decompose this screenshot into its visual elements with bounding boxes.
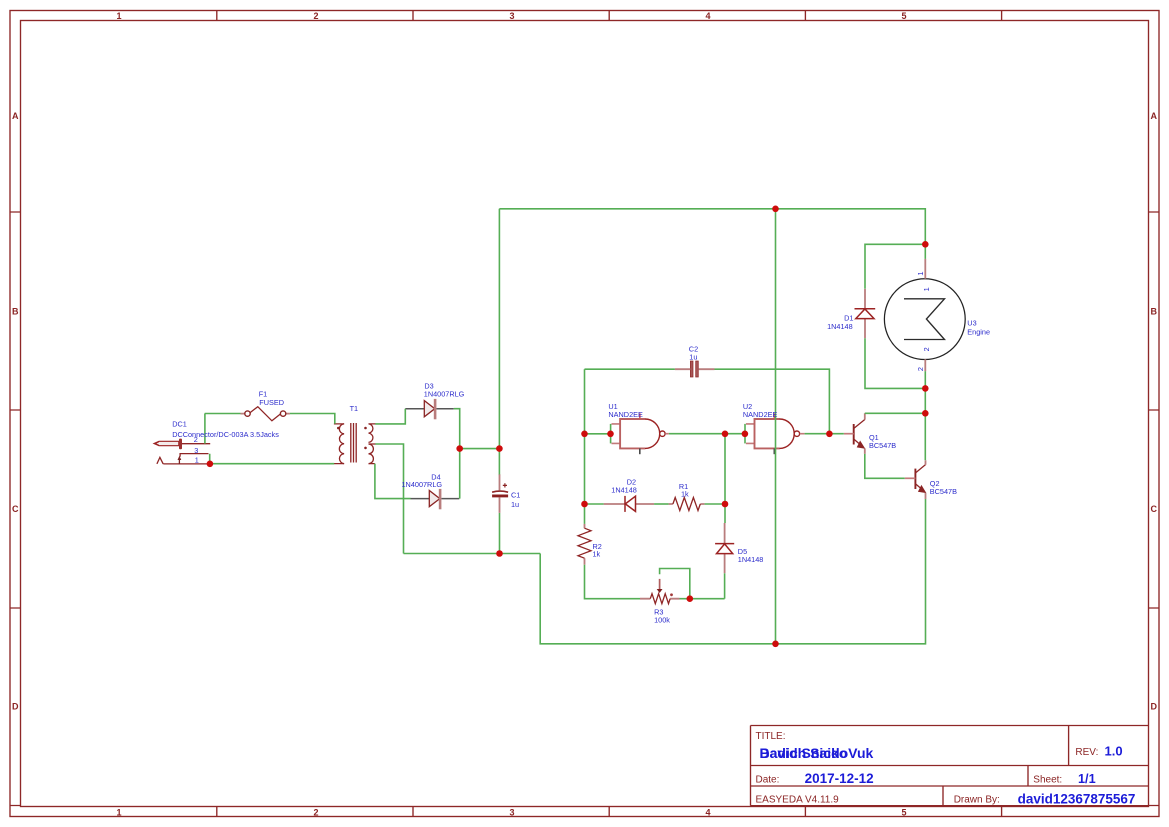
- pale leads C1: [499, 474, 501, 513]
- wire: [404, 553, 541, 555]
- svg-text:3: 3: [509, 11, 514, 21]
- junction: [581, 501, 588, 508]
- wire: [375, 409, 405, 424]
- wire: [498, 209, 500, 476]
- wire: [499, 513, 501, 554]
- diode D5: [715, 523, 734, 573]
- svg-text:Badich SaidoVuk: Badich SaidoVuk: [760, 745, 874, 761]
- svg-text:2: 2: [194, 435, 198, 444]
- svg-text:1N4148: 1N4148: [738, 555, 764, 564]
- wire: [865, 244, 925, 288]
- svg-text:1N4007RLG: 1N4007RLG: [424, 390, 465, 399]
- svg-text:100k: 100k: [654, 615, 670, 624]
- junction: [922, 241, 929, 248]
- svg-text:BC547B: BC547B: [869, 441, 896, 450]
- wire: [584, 434, 586, 524]
- wire: [724, 434, 726, 523]
- wire: [775, 209, 777, 644]
- wire: [654, 503, 669, 505]
- resistor R2: [578, 524, 591, 565]
- wire: [865, 454, 905, 478]
- svg-text:NAND2EE: NAND2EE: [608, 410, 643, 419]
- wire: [924, 244, 926, 259]
- svg-text:5: 5: [901, 11, 906, 21]
- svg-text:1: 1: [116, 11, 121, 21]
- wire: [210, 454, 335, 464]
- svg-text:Drawn By:: Drawn By:: [954, 795, 1000, 806]
- svg-text:2: 2: [313, 808, 318, 818]
- svg-text:Date:: Date:: [756, 775, 780, 786]
- svg-text:T1: T1: [350, 404, 359, 413]
- wire: [715, 369, 830, 434]
- wire: [290, 414, 335, 424]
- wire: [585, 503, 604, 505]
- wire: [705, 503, 725, 505]
- svg-text:david12367875567: david12367875567: [1018, 792, 1136, 807]
- fuse F1: [241, 407, 290, 421]
- junction: [456, 445, 463, 452]
- wire: [375, 464, 411, 499]
- junction: [607, 431, 614, 438]
- svg-text:DC1: DC1: [172, 420, 187, 429]
- svg-text:2: 2: [922, 347, 931, 351]
- svg-text:C1: C1: [511, 491, 520, 500]
- capacitor C2: [690, 361, 698, 377]
- junction: [207, 461, 214, 468]
- junction: [922, 410, 929, 417]
- svg-text:2: 2: [313, 11, 318, 21]
- svg-text:2: 2: [916, 367, 925, 371]
- svg-text:TITLE:: TITLE:: [756, 731, 786, 742]
- connector DC1: [154, 439, 210, 464]
- junction: [722, 501, 729, 508]
- motor U3: [884, 259, 965, 371]
- transformer T1: [334, 423, 376, 464]
- wire: [585, 433, 611, 435]
- svg-text:B: B: [1151, 307, 1158, 317]
- pale leads C2: [675, 368, 715, 370]
- wire: [585, 368, 675, 370]
- svg-text:FUSED: FUSED: [259, 398, 284, 407]
- wire: [499, 209, 925, 245]
- wire: [724, 573, 726, 598]
- diode D4: [411, 489, 460, 509]
- wire: [680, 598, 725, 600]
- svg-text:D: D: [1151, 702, 1158, 712]
- diode D1: [855, 289, 876, 338]
- svg-text:BC547B: BC547B: [930, 487, 957, 496]
- wire: [585, 565, 641, 599]
- svg-text:1/1: 1/1: [1078, 772, 1096, 786]
- svg-text:1: 1: [922, 287, 931, 291]
- wire: [460, 448, 500, 450]
- svg-text:A: A: [12, 111, 19, 121]
- wire: [375, 444, 403, 554]
- svg-text:A: A: [1151, 111, 1158, 121]
- junction: [722, 431, 729, 438]
- svg-text:Engine: Engine: [967, 328, 990, 337]
- svg-text:2017-12-12: 2017-12-12: [805, 771, 874, 786]
- svg-text:1N4148: 1N4148: [827, 322, 853, 331]
- svg-text:D1: D1: [844, 313, 853, 322]
- svg-text:1u: 1u: [689, 353, 697, 362]
- svg-text:3: 3: [509, 808, 514, 818]
- wire: [454, 409, 460, 499]
- diode D3: [405, 399, 454, 419]
- resistor R1: [669, 498, 705, 511]
- junction: [496, 445, 503, 452]
- junction: [581, 431, 588, 438]
- wire: [205, 413, 241, 415]
- junction: [772, 641, 779, 648]
- svg-text:4: 4: [705, 808, 710, 818]
- svg-text:1: 1: [116, 808, 121, 818]
- capacitor C1: [492, 483, 508, 496]
- svg-text:Sheet:: Sheet:: [1033, 775, 1062, 786]
- junction: [826, 431, 833, 438]
- svg-text:1u: 1u: [511, 500, 519, 509]
- wire: [584, 369, 586, 434]
- svg-text:EASYEDA V4.11.9: EASYEDA V4.11.9: [756, 795, 840, 806]
- svg-text:C: C: [12, 504, 19, 514]
- nand gate U1: [611, 413, 669, 454]
- svg-text:DCConnector/DC-003A 3.5Jacks: DCConnector/DC-003A 3.5Jacks: [172, 430, 279, 439]
- svg-text:1N4007RLG: 1N4007RLG: [402, 480, 443, 489]
- svg-text:1k: 1k: [681, 490, 689, 499]
- svg-text:1N4148: 1N4148: [611, 486, 637, 495]
- junction: [772, 206, 779, 213]
- svg-text:5: 5: [901, 808, 906, 818]
- potentiometer R3: [640, 579, 680, 604]
- svg-text:1: 1: [916, 272, 925, 276]
- transistor Q1: [844, 413, 866, 454]
- wire: [924, 371, 926, 460]
- wire: [540, 499, 925, 644]
- wire: [204, 414, 206, 444]
- nand gate U2: [745, 413, 805, 454]
- wire: [865, 338, 925, 388]
- svg-text:REV:: REV:: [1075, 747, 1098, 758]
- svg-text:U3: U3: [967, 319, 976, 328]
- svg-text:4: 4: [705, 11, 710, 21]
- junction: [687, 595, 694, 602]
- svg-text:NAND2EE: NAND2EE: [743, 410, 778, 419]
- svg-text:D: D: [12, 702, 19, 712]
- TITLEBLOCK: [751, 726, 1149, 807]
- junction: [922, 385, 929, 392]
- junction: [496, 550, 503, 557]
- svg-text:1: 1: [195, 455, 199, 464]
- wire: [660, 569, 690, 599]
- wire: [669, 433, 745, 435]
- wire: [865, 412, 926, 414]
- svg-text:1k: 1k: [593, 550, 601, 559]
- diode D2: [604, 496, 655, 512]
- wire: [805, 433, 844, 435]
- junction: [742, 431, 749, 438]
- svg-text:C: C: [1151, 504, 1158, 514]
- transistor Q2: [905, 460, 927, 499]
- svg-text:1.0: 1.0: [1105, 744, 1123, 759]
- svg-text:3: 3: [194, 446, 198, 455]
- svg-text:B: B: [12, 307, 19, 317]
